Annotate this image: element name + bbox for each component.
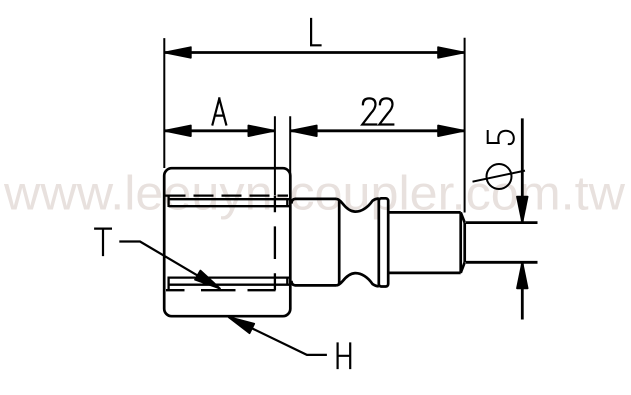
svg-text:www.leeuyn-coupler.com.tw: www.leeuyn-coupler.com.tw xyxy=(3,168,625,221)
